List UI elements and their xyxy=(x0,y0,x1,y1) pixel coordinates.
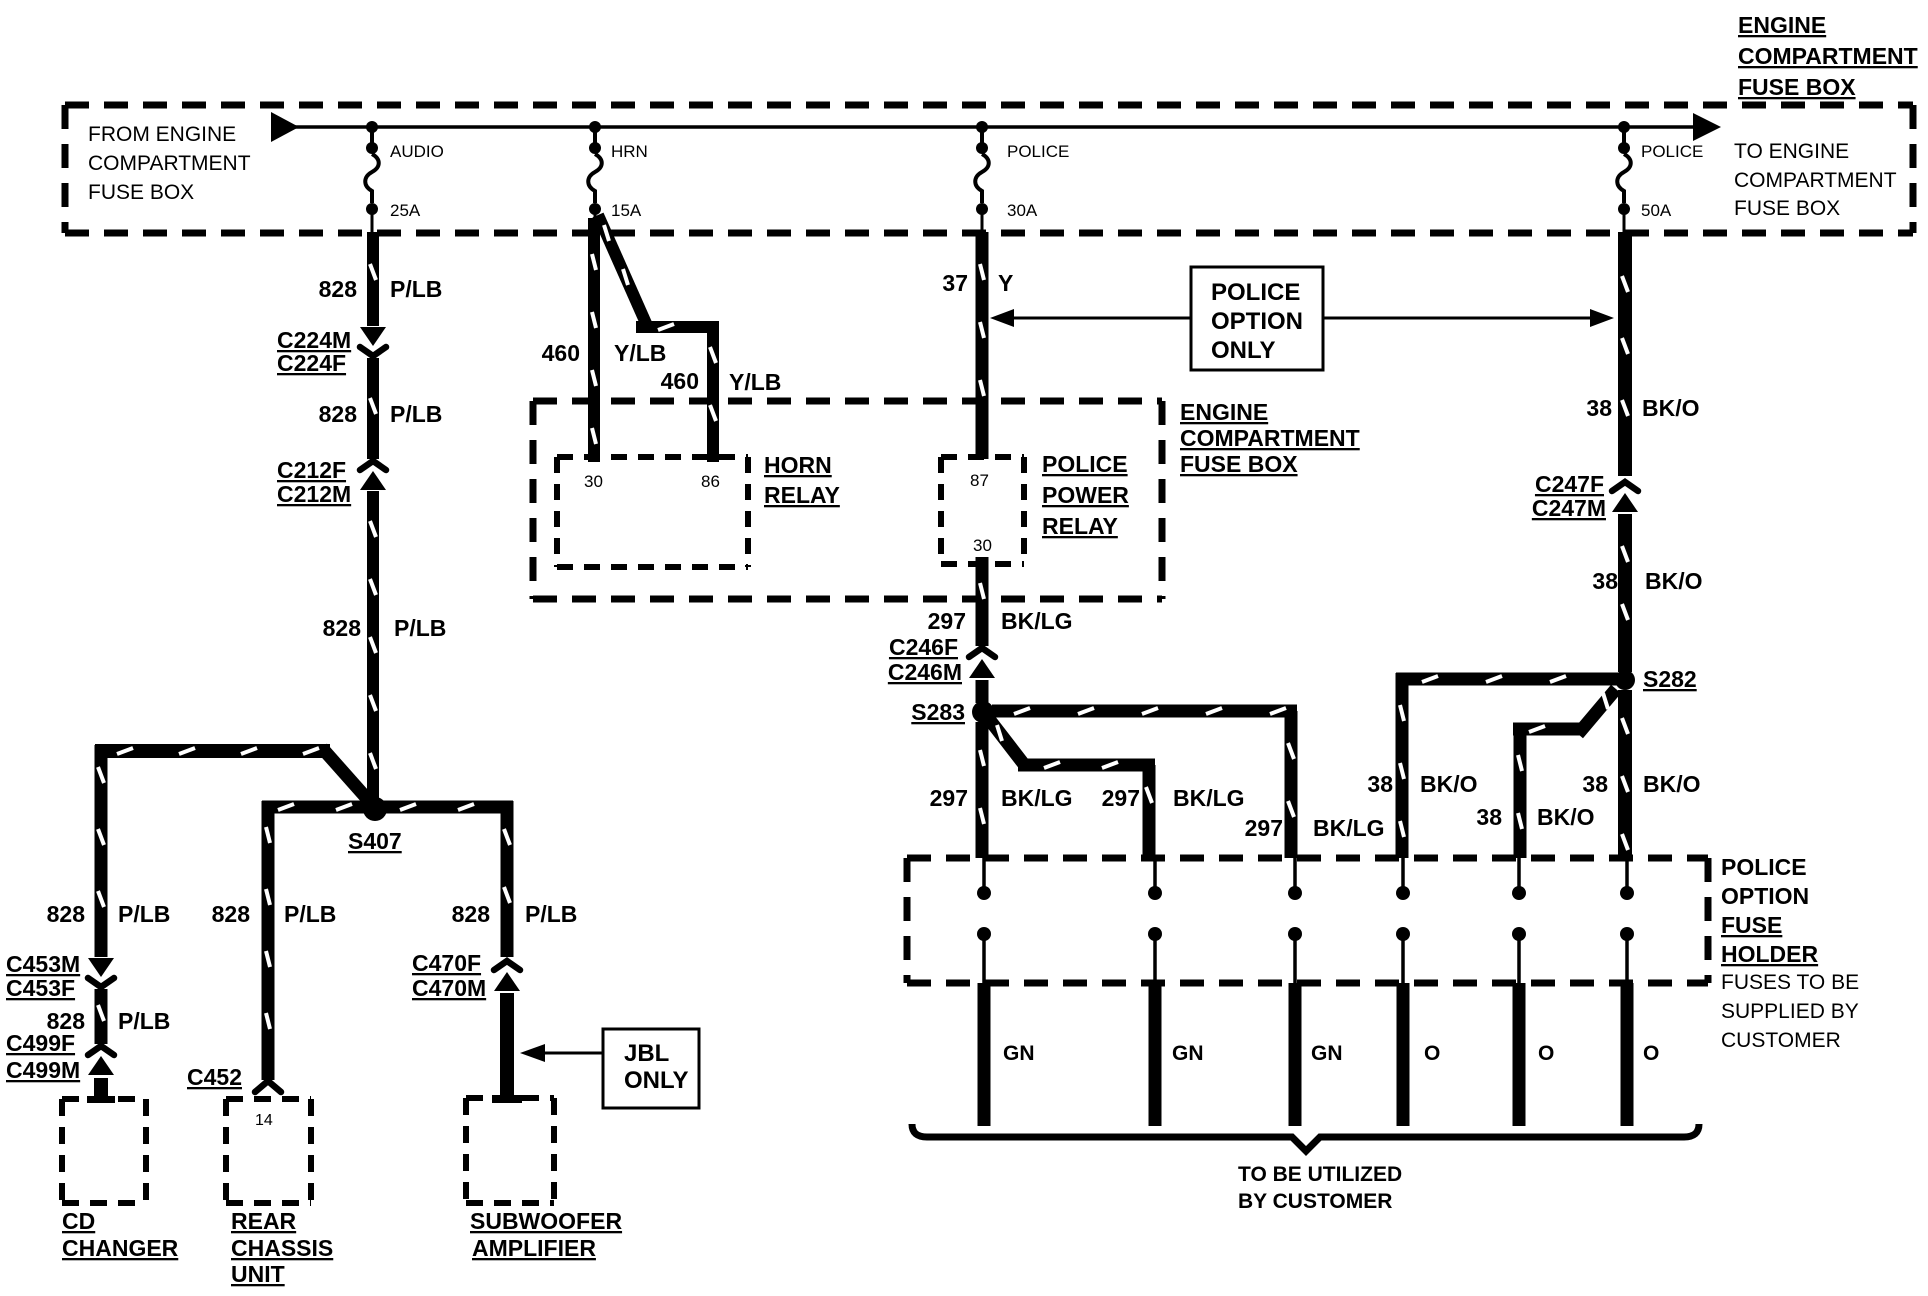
svg-text:828: 828 xyxy=(452,901,491,927)
POLICE OPTION ONLY box xyxy=(1191,267,1323,370)
arrow police option right xyxy=(1323,309,1614,327)
svg-text:C453M: C453M xyxy=(6,951,80,977)
svg-text:COMPARTMENT: COMPARTMENT xyxy=(1734,169,1897,192)
wire 828 to C499 xyxy=(98,989,104,1044)
svg-text:POLICE: POLICE xyxy=(1641,142,1703,161)
svg-text:14: 14 xyxy=(255,1112,273,1129)
brace to be utilized by customer xyxy=(912,1124,1699,1151)
wire 297 lower horizontal xyxy=(1018,762,1155,768)
connector symbol C246 male xyxy=(969,659,995,678)
svg-text:FUSE: FUSE xyxy=(1721,912,1782,938)
svg-text:C499M: C499M xyxy=(6,1057,80,1083)
rear chassis unit box (dashed) xyxy=(226,1099,311,1203)
svg-text:AMPLIFIER: AMPLIFIER xyxy=(472,1235,596,1261)
wire 297 horizontal from S283 xyxy=(992,708,1297,714)
engine compartment fuse box (middle, dashed) xyxy=(533,401,1162,599)
wire 828 right branch horizontal xyxy=(380,804,513,810)
wire 460 Y/LB to horn relay pin 30 xyxy=(592,218,596,462)
node AUDIO tap xyxy=(366,121,378,154)
svg-text:COMPARTMENT: COMPARTMENT xyxy=(1180,425,1360,451)
svg-text:P/LB: P/LB xyxy=(118,1008,170,1034)
wire customer GN 1 xyxy=(978,983,991,1126)
fuse AUDIO 25A xyxy=(365,154,379,203)
wire 460 diagonal xyxy=(598,215,649,330)
connector symbol C470 male xyxy=(494,972,520,991)
connector symbol C453 female xyxy=(88,978,114,987)
connector symbol C247 female xyxy=(1612,482,1638,491)
svg-text:P/LB: P/LB xyxy=(284,901,336,927)
svg-text:OPTION: OPTION xyxy=(1211,308,1303,335)
arrow to engine compartment fuse box xyxy=(1693,113,1721,141)
svg-text:C470F: C470F xyxy=(412,950,481,976)
node AUDIO fuse out xyxy=(366,203,378,233)
fuse HRN 15A xyxy=(588,154,602,203)
wire customer GN 3 xyxy=(1289,983,1302,1126)
svg-text:86: 86 xyxy=(701,472,720,491)
svg-text:C224F: C224F xyxy=(277,350,346,376)
wire 37 Y to police power relay xyxy=(980,232,984,459)
svg-text:FUSE BOX: FUSE BOX xyxy=(1180,451,1298,477)
svg-text:828: 828 xyxy=(319,401,358,427)
police option fuse holder box (dashed) xyxy=(907,858,1708,983)
connector symbol C499 female xyxy=(88,1046,114,1055)
svg-text:297: 297 xyxy=(930,785,968,811)
svg-text:COMPARTMENT: COMPARTMENT xyxy=(1738,43,1918,69)
wire 38 BK/O middle xyxy=(1622,514,1628,672)
wire 38 BK/O to fuse holder 4 xyxy=(1400,673,1404,858)
svg-text:C247M: C247M xyxy=(1532,495,1606,521)
svg-text:CUSTOMER: CUSTOMER xyxy=(1721,1029,1841,1052)
svg-text:C247F: C247F xyxy=(1535,471,1604,497)
JBL ONLY box xyxy=(603,1029,699,1108)
fuse position 3 (police option fuse holder) xyxy=(1288,858,1302,983)
wire 297 into S283 xyxy=(976,680,989,703)
svg-text:38: 38 xyxy=(1367,771,1393,797)
svg-text:BK/O: BK/O xyxy=(1420,771,1478,797)
svg-text:37: 37 xyxy=(942,270,968,296)
svg-text:30A: 30A xyxy=(1007,201,1038,220)
svg-text:15A: 15A xyxy=(611,201,642,220)
svg-text:C452: C452 xyxy=(187,1064,242,1090)
node POLICE fuse out xyxy=(976,203,988,233)
svg-text:P/LB: P/LB xyxy=(390,401,442,427)
wire 828 upper-left horizontal xyxy=(95,748,330,754)
svg-text:O: O xyxy=(1643,1042,1659,1065)
wire 828 P/LB segment 3 xyxy=(370,491,376,809)
wire 460 Y/LB to horn relay pin 86 xyxy=(710,321,716,462)
wire 297 BK/LG to fuse holder 1 xyxy=(980,722,984,858)
wire 828 P/LB segment 1 xyxy=(370,232,376,326)
svg-text:RELAY: RELAY xyxy=(1042,513,1118,539)
svg-text:BK/O: BK/O xyxy=(1537,804,1595,830)
svg-text:GN: GN xyxy=(1172,1042,1204,1065)
svg-text:AUDIO: AUDIO xyxy=(390,142,444,161)
svg-text:P/LB: P/LB xyxy=(118,901,170,927)
svg-text:460: 460 xyxy=(661,368,699,394)
svg-text:50A: 50A xyxy=(1641,201,1672,220)
svg-text:ONLY: ONLY xyxy=(624,1067,688,1094)
svg-text:C453F: C453F xyxy=(6,975,75,1001)
svg-text:C246F: C246F xyxy=(889,634,958,660)
wire main bus xyxy=(290,125,1700,129)
svg-text:38: 38 xyxy=(1592,568,1618,594)
svg-text:O: O xyxy=(1538,1042,1554,1065)
svg-text:UNIT: UNIT xyxy=(231,1261,285,1287)
svg-text:CHANGER: CHANGER xyxy=(62,1235,179,1261)
fuse position 4 (police option fuse holder) xyxy=(1396,858,1410,983)
svg-text:38: 38 xyxy=(1586,395,1612,421)
wire 297 BK/LG from relay xyxy=(980,557,984,646)
svg-text:POLICE: POLICE xyxy=(1721,854,1807,880)
wire customer GN 2 xyxy=(1149,983,1162,1126)
svg-text:TO ENGINE: TO ENGINE xyxy=(1734,140,1849,163)
wire 828 left vertical upper xyxy=(98,745,104,957)
wire diagonal from S282 xyxy=(1578,689,1616,734)
svg-text:POWER: POWER xyxy=(1042,482,1129,508)
connector symbol C212 female xyxy=(360,461,386,470)
connector symbol C453 male xyxy=(88,958,114,977)
svg-text:P/LB: P/LB xyxy=(394,615,446,641)
arrow police option left xyxy=(990,309,1191,327)
svg-text:C246M: C246M xyxy=(888,659,962,685)
svg-text:P/LB: P/LB xyxy=(390,276,442,302)
svg-text:ENGINE: ENGINE xyxy=(1738,12,1826,38)
svg-text:SUPPLIED BY: SUPPLIED BY xyxy=(1721,1000,1859,1023)
connector symbol C224 male xyxy=(360,327,386,346)
arrow from engine compartment fuse box xyxy=(271,112,299,142)
svg-text:BK/LG: BK/LG xyxy=(1001,608,1073,634)
svg-text:BK/LG: BK/LG xyxy=(1001,785,1073,811)
svg-text:FUSE BOX: FUSE BOX xyxy=(88,181,194,204)
wire into CD changer xyxy=(94,1078,108,1099)
wire terminal subwoofer xyxy=(492,1095,522,1103)
splice S283 xyxy=(972,701,994,723)
wire 38 BK/O to fuse holder 5 xyxy=(1518,729,1522,858)
svg-text:38: 38 xyxy=(1582,771,1608,797)
fuse position 2 (police option fuse holder) xyxy=(1148,858,1162,983)
svg-text:297: 297 xyxy=(928,608,966,634)
CD changer box (dashed) xyxy=(62,1099,146,1203)
node HRN fuse out xyxy=(589,203,601,233)
wire diagonal into S407 xyxy=(322,748,378,811)
svg-text:38: 38 xyxy=(1476,804,1502,830)
fuse position 1 (police option fuse holder) xyxy=(977,858,991,983)
fuse POLICE 50A xyxy=(1617,154,1631,203)
svg-text:OPTION: OPTION xyxy=(1721,883,1809,909)
wire customer O 6 xyxy=(1621,983,1634,1126)
node POLICE fuse out xyxy=(1618,203,1630,233)
svg-text:HOLDER: HOLDER xyxy=(1721,941,1819,967)
wire into subwoofer amplifier xyxy=(500,993,514,1099)
svg-text:C499F: C499F xyxy=(6,1030,75,1056)
svg-text:O: O xyxy=(1424,1042,1440,1065)
wire 828 P/LB segment 2 xyxy=(370,358,376,459)
wire 297 BK/LG to fuse holder 3 xyxy=(1288,711,1294,858)
svg-text:BK/LG: BK/LG xyxy=(1313,815,1385,841)
svg-text:POLICE: POLICE xyxy=(1007,142,1069,161)
svg-text:HORN: HORN xyxy=(764,452,832,478)
svg-text:30: 30 xyxy=(584,472,603,491)
svg-text:GN: GN xyxy=(1311,1042,1343,1065)
svg-text:C470M: C470M xyxy=(412,975,486,1001)
node HRN tap xyxy=(589,121,601,154)
police power relay box (dashed) xyxy=(941,457,1024,564)
wire 38 BK/O upper xyxy=(1622,232,1628,476)
svg-text:87: 87 xyxy=(970,471,989,490)
wire 38 BK/O to fuse holder 6 xyxy=(1622,690,1628,858)
svg-text:C212F: C212F xyxy=(277,457,346,483)
svg-text:297: 297 xyxy=(1245,815,1283,841)
splice S282 xyxy=(1615,670,1635,690)
svg-text:S283: S283 xyxy=(911,699,965,725)
node POLICE tap xyxy=(1618,121,1630,154)
svg-text:828: 828 xyxy=(323,615,362,641)
svg-text:828: 828 xyxy=(212,901,251,927)
svg-text:GN: GN xyxy=(1003,1042,1035,1065)
svg-text:REAR: REAR xyxy=(231,1208,297,1234)
svg-text:C212M: C212M xyxy=(277,481,351,507)
wire terminal CD changer xyxy=(87,1096,115,1103)
svg-text:S407: S407 xyxy=(348,828,402,854)
svg-text:ENGINE: ENGINE xyxy=(1180,399,1268,425)
svg-text:BK/O: BK/O xyxy=(1645,568,1703,594)
wire customer O 5 xyxy=(1513,983,1526,1126)
svg-text:FROM ENGINE: FROM ENGINE xyxy=(88,123,236,146)
wire 460 horizontal xyxy=(636,324,716,330)
svg-text:Y: Y xyxy=(998,270,1013,296)
svg-text:S282: S282 xyxy=(1643,666,1697,692)
svg-text:JBL: JBL xyxy=(624,1040,669,1067)
svg-text:ONLY: ONLY xyxy=(1211,337,1275,364)
svg-text:BK/O: BK/O xyxy=(1643,771,1701,797)
svg-text:Y/LB: Y/LB xyxy=(729,369,781,395)
svg-text:FUSES TO BE: FUSES TO BE xyxy=(1721,971,1859,994)
svg-text:SUBWOOFER: SUBWOOFER xyxy=(470,1208,622,1234)
wire 38 lower horizontal xyxy=(1513,726,1584,732)
svg-text:BY CUSTOMER: BY CUSTOMER xyxy=(1238,1190,1392,1213)
svg-text:BK/O: BK/O xyxy=(1642,395,1700,421)
svg-text:25A: 25A xyxy=(390,201,421,220)
svg-text:828: 828 xyxy=(47,901,86,927)
fuse position 6 (police option fuse holder) xyxy=(1620,858,1634,983)
svg-text:TO BE UTILIZED: TO BE UTILIZED xyxy=(1238,1163,1402,1186)
connector symbol C452 xyxy=(255,1081,281,1092)
svg-text:Y/LB: Y/LB xyxy=(614,340,666,366)
wire diagonal from S283 xyxy=(989,719,1026,767)
connector symbol C470 female xyxy=(494,961,520,970)
subwoofer amplifier box (dashed) xyxy=(466,1098,554,1203)
svg-text:FUSE BOX: FUSE BOX xyxy=(1738,74,1856,100)
svg-text:POLICE: POLICE xyxy=(1042,451,1128,477)
wire 297 BK/LG to fuse holder 2 xyxy=(1146,765,1152,858)
arrow JBL only xyxy=(520,1044,603,1062)
svg-text:CHASSIS: CHASSIS xyxy=(231,1235,333,1261)
horn relay box (dashed) xyxy=(557,457,748,567)
svg-text:30: 30 xyxy=(973,536,992,555)
fuse position 5 (police option fuse holder) xyxy=(1512,858,1526,983)
connector symbol C212 male xyxy=(360,471,386,490)
wire customer O 4 xyxy=(1397,983,1410,1126)
connector symbol C246 female xyxy=(969,648,995,657)
connector symbol C499 male xyxy=(88,1056,114,1075)
wire 828 middle vertical xyxy=(266,801,270,1080)
wire 38 horizontal from S282 xyxy=(1396,676,1618,682)
connector symbol C247 male xyxy=(1612,493,1638,512)
node POLICE tap xyxy=(976,121,988,154)
wire 828 left branch horizontal xyxy=(262,804,370,810)
svg-text:297: 297 xyxy=(1102,785,1140,811)
svg-text:CD: CD xyxy=(62,1208,95,1234)
fuse POLICE 30A xyxy=(975,154,989,203)
svg-text:460: 460 xyxy=(542,340,580,366)
svg-text:HRN: HRN xyxy=(611,142,648,161)
svg-text:P/LB: P/LB xyxy=(525,901,577,927)
svg-text:RELAY: RELAY xyxy=(764,482,840,508)
connector symbol C224 female xyxy=(360,347,386,356)
svg-text:BK/LG: BK/LG xyxy=(1173,785,1245,811)
svg-text:828: 828 xyxy=(319,276,358,302)
svg-text:COMPARTMENT: COMPARTMENT xyxy=(88,152,251,175)
svg-text:FUSE BOX: FUSE BOX xyxy=(1734,197,1840,220)
wire 828 right vertical upper xyxy=(504,801,510,957)
splice S407 xyxy=(363,797,387,821)
engine compartment fuse box (top, dashed) xyxy=(65,105,1913,233)
svg-text:POLICE: POLICE xyxy=(1211,279,1300,306)
